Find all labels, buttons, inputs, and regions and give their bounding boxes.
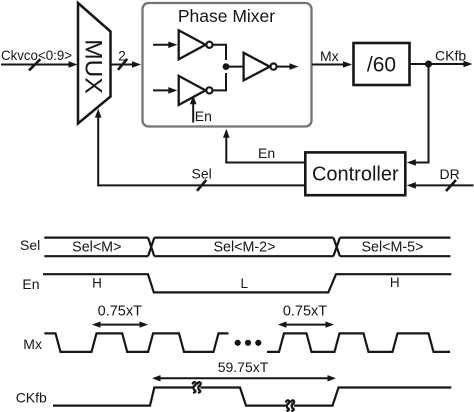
svg-text:CKfb: CKfb bbox=[16, 390, 47, 406]
wire CKfb output bbox=[410, 61, 473, 68]
crossover 2 bbox=[333, 238, 340, 257]
En arrow into U2 bbox=[190, 95, 197, 122]
break mark on CKfb low bbox=[286, 400, 294, 410]
svg-text:L: L bbox=[240, 276, 248, 291]
svg-text:/60: /60 bbox=[367, 53, 396, 76]
wire feedback CKfb to controller bbox=[407, 64, 429, 166]
svg-text:Mx: Mx bbox=[23, 336, 42, 352]
bus slash Sel bbox=[197, 180, 206, 191]
inverter U3 bbox=[244, 53, 277, 81]
svg-text:CKfb: CKfb bbox=[435, 48, 466, 64]
Mx waveform right bbox=[267, 333, 450, 352]
controller U5 bbox=[305, 152, 405, 195]
bus slash 2 bbox=[118, 59, 127, 70]
CKfb waveform bbox=[53, 388, 451, 406]
bus slash Ckvco bbox=[29, 59, 40, 70]
svg-text:59.75xT: 59.75xT bbox=[218, 359, 269, 375]
wire Sel controller to mux bbox=[95, 109, 304, 186]
mux M1 bbox=[78, 3, 111, 124]
svg-text:Phase Mixer: Phase Mixer bbox=[178, 6, 275, 26]
svg-text:0.75xT: 0.75xT bbox=[98, 303, 142, 319]
tristate inverter U2 bbox=[179, 76, 213, 105]
svg-text:En: En bbox=[22, 276, 39, 292]
wire En controller to mixer bbox=[223, 129, 304, 163]
break mark on CKfb high bbox=[193, 382, 201, 392]
wire Ckvco input bbox=[1, 61, 78, 68]
wire 2-bit MUX to Phase Mixer bbox=[112, 61, 142, 68]
svg-text:Controller: Controller bbox=[312, 164, 399, 186]
phase mixer box U0 bbox=[143, 3, 312, 127]
arrow 59.75xT bbox=[152, 375, 336, 381]
Mx waveform left bbox=[44, 333, 228, 352]
svg-text:Sel: Sel bbox=[20, 237, 40, 253]
svg-text:H: H bbox=[390, 275, 400, 290]
wire input to inverter U1 bbox=[153, 42, 177, 49]
wire node to U3 bbox=[226, 66, 243, 68]
wire Mx from mixer to divider bbox=[312, 61, 352, 68]
arrow 0.75xT right bbox=[278, 321, 334, 327]
segment Sel<M> rails bbox=[44, 237, 148, 239]
svg-text:H: H bbox=[92, 275, 102, 290]
segment Sel<M-2> rails bbox=[154, 237, 333, 239]
wire input to inverter U2 bbox=[153, 87, 177, 94]
wire DR input bbox=[407, 182, 474, 189]
Sel bus waveform bbox=[44, 238, 450, 257]
segment Sel<M-5> rails bbox=[340, 237, 451, 239]
svg-text:MUX: MUX bbox=[79, 39, 106, 93]
dots ellipsis bbox=[235, 340, 262, 346]
crossover 1 bbox=[148, 238, 154, 257]
divider /60 U4 bbox=[354, 43, 410, 85]
svg-text:En: En bbox=[195, 108, 212, 124]
node CKfb bbox=[425, 61, 432, 68]
svg-text:2: 2 bbox=[118, 48, 126, 63]
svg-text:Sel<M-5>: Sel<M-5> bbox=[362, 240, 424, 256]
svg-text:Ckvco<0:9>: Ckvco<0:9> bbox=[1, 47, 72, 63]
wire U1 output to node bbox=[213, 45, 227, 60]
arrow 0.75xT left bbox=[92, 321, 148, 327]
svg-text:Sel<M-2>: Sel<M-2> bbox=[214, 240, 276, 256]
node mix bbox=[223, 63, 230, 70]
svg-text:0.75xT: 0.75xT bbox=[283, 303, 327, 319]
svg-text:Sel: Sel bbox=[192, 166, 212, 182]
En waveform bbox=[43, 274, 451, 292]
tristate inverter U1 bbox=[179, 30, 213, 59]
svg-text:En: En bbox=[258, 145, 275, 161]
wire U2 output to node bbox=[213, 73, 227, 90]
bus slash DR bbox=[446, 180, 456, 191]
wire U3 output arrow bbox=[277, 63, 299, 70]
svg-text:Mx: Mx bbox=[320, 48, 339, 64]
svg-text:Sel<M>: Sel<M> bbox=[72, 240, 121, 256]
svg-text:DR: DR bbox=[440, 166, 460, 182]
